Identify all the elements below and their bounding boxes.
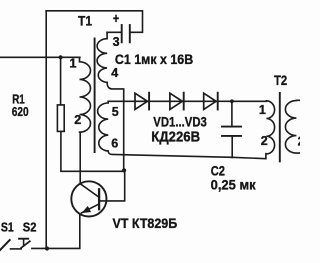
svg-text:+: +	[113, 11, 119, 26]
diode VD3	[204, 93, 216, 109]
transistor VT emitter diagonal	[82, 204, 100, 213]
switch S2 actuator cap	[19, 238, 28, 240]
svg-text:Т2: Т2	[274, 72, 287, 88]
node junction C2 top	[230, 99, 234, 103]
svg-text:6: 6	[111, 137, 118, 151]
diode VD2	[170, 93, 182, 109]
transistor VT base bar	[98, 189, 100, 209]
wire top rail C1 right plate to left vertical	[46, 11, 142, 33]
wire C1 left plate to T1 pin 3	[107, 31, 122, 33]
switch S2 blade	[21, 241, 30, 248]
diode VD1	[135, 93, 147, 109]
svg-text:VD1...VD3: VD1...VD3	[153, 115, 207, 130]
wire left vertical (top rail to bottom rail)	[45, 11, 47, 249]
diode VD3 cathode bar	[217, 93, 219, 110]
capacitor C2 top plate	[222, 126, 241, 128]
transformer T1 winding 3-4	[97, 32, 107, 82]
node junction bottom rail	[45, 246, 49, 250]
transistor VT circle	[71, 181, 106, 216]
transformer T1 winding 1-2	[80, 57, 91, 132]
node junction R1 top	[59, 55, 63, 59]
wire R1 top lead	[60, 57, 62, 105]
wire mains input to T1 pin 1	[0, 56, 80, 58]
core T2	[279, 93, 281, 161]
wire C2 bottom lead	[231, 136, 233, 158]
transistor VT emitter arrowhead	[83, 207, 91, 213]
svg-text:2: 2	[298, 135, 300, 149]
transformer T1 winding 5-6	[98, 101, 109, 151]
wire diode rail	[108, 100, 266, 102]
resistor R1 body	[57, 105, 64, 131]
svg-text:0,25 мк: 0,25 мк	[211, 176, 257, 192]
wire S1 to S2	[11, 248, 22, 250]
wire C2 top lead	[231, 101, 233, 125]
svg-text:1: 1	[70, 57, 77, 71]
transformer T2 winding secondary	[285, 100, 300, 153]
svg-text:Т1: Т1	[78, 12, 92, 28]
svg-text:2: 2	[261, 134, 268, 148]
svg-text:С1 1мк х 16В: С1 1мк х 16В	[115, 51, 193, 67]
node junction VT base	[122, 168, 126, 172]
svg-text:2: 2	[74, 113, 81, 127]
switch S1 blade	[0, 240, 10, 250]
wire VT base to junction	[99, 170, 125, 201]
core T1	[94, 39, 96, 153]
capacitor C1 right plate	[129, 25, 131, 42]
svg-text:VT КТ829Б: VT КТ829Б	[113, 215, 178, 231]
wire T1 pin 4 to base junction vertical	[107, 82, 124, 170]
wire T1 pin2 to VT collector	[79, 132, 81, 184]
svg-text:620: 620	[12, 104, 29, 119]
svg-text:3: 3	[113, 35, 120, 49]
capacitor C1 left plate	[121, 25, 123, 42]
wire T1 pin 6 to bottom rail	[108, 151, 266, 159]
switch S2 actuator stem	[23, 239, 25, 245]
svg-text:S2: S2	[23, 219, 37, 234]
svg-text:КД226В: КД226В	[151, 129, 200, 145]
transformer T2 winding 1-2	[266, 101, 274, 154]
capacitor C2 bottom plate	[222, 135, 241, 137]
wire VT emitter to bottom rail	[32, 214, 80, 249]
svg-text:5: 5	[112, 105, 119, 119]
diode VD1 cathode bar	[148, 93, 150, 110]
svg-text:S1: S1	[1, 219, 14, 234]
svg-text:1: 1	[259, 103, 266, 117]
transistor VT collector diagonal	[80, 184, 99, 198]
svg-text:4: 4	[111, 66, 118, 80]
wire R1 bottom lead to base junction	[61, 131, 124, 171]
diode VD2 cathode bar	[183, 93, 185, 110]
